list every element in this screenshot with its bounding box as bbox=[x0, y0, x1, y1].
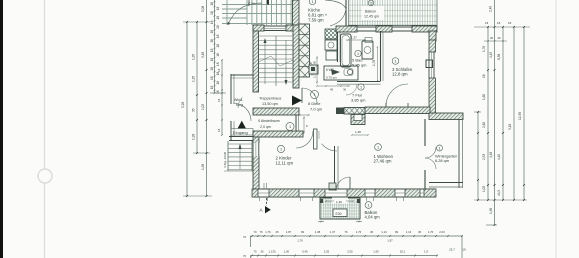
svg-text:4,04 qm: 4,04 qm bbox=[365, 215, 381, 220]
svg-text:E30: E30 bbox=[336, 212, 342, 216]
svg-text:18: 18 bbox=[216, 6, 220, 10]
svg-text:Treppenhaus: Treppenhaus bbox=[259, 97, 281, 101]
svg-text:1,76: 1,76 bbox=[265, 230, 271, 234]
svg-text:3,85 qm: 3,85 qm bbox=[351, 98, 366, 103]
svg-text:2,05: 2,05 bbox=[347, 250, 353, 254]
svg-text:7,59 qm: 7,59 qm bbox=[308, 18, 324, 23]
svg-text:18: 18 bbox=[216, 90, 220, 94]
svg-text:99: 99 bbox=[395, 230, 399, 234]
svg-text:45: 45 bbox=[370, 230, 374, 234]
svg-text:70: 70 bbox=[253, 230, 257, 234]
svg-text:13,50 qm: 13,50 qm bbox=[262, 102, 278, 106]
svg-text:Eingang: Eingang bbox=[233, 130, 248, 135]
svg-text:18: 18 bbox=[497, 21, 501, 25]
svg-text:3,18: 3,18 bbox=[508, 124, 512, 130]
svg-text:18: 18 bbox=[210, 20, 214, 24]
svg-text:4,45: 4,45 bbox=[489, 52, 493, 58]
svg-text:5,08: 5,08 bbox=[201, 6, 205, 12]
svg-text:7,0 qm: 7,0 qm bbox=[310, 107, 323, 112]
svg-text:6,28 qm: 6,28 qm bbox=[435, 158, 449, 163]
svg-text:35: 35 bbox=[192, 108, 196, 112]
svg-text:25,7: 25,7 bbox=[449, 248, 455, 252]
svg-text:18: 18 bbox=[216, 16, 220, 20]
svg-text:1,36: 1,36 bbox=[489, 208, 493, 214]
svg-text:18: 18 bbox=[210, 76, 214, 80]
svg-text:2,60: 2,60 bbox=[482, 122, 486, 128]
svg-text:1,76: 1,76 bbox=[428, 230, 434, 234]
svg-text:18: 18 bbox=[210, 67, 214, 71]
svg-text:2,05: 2,05 bbox=[324, 250, 330, 254]
svg-text:5,85 qm: 5,85 qm bbox=[352, 63, 367, 68]
svg-text:1: 1 bbox=[394, 60, 396, 64]
svg-text:94: 94 bbox=[252, 2, 256, 6]
svg-text:36: 36 bbox=[498, 36, 502, 40]
svg-text:1: 1 bbox=[367, 204, 369, 208]
svg-text:12,45 qm: 12,45 qm bbox=[364, 15, 379, 19]
svg-text:1,35: 1,35 bbox=[192, 76, 196, 82]
svg-text:1,13: 1,13 bbox=[406, 230, 412, 234]
svg-text:18: 18 bbox=[210, 39, 214, 43]
svg-text:45: 45 bbox=[275, 230, 279, 234]
svg-text:1: 1 bbox=[357, 52, 359, 56]
svg-text:1,38: 1,38 bbox=[315, 230, 321, 234]
svg-text:1: 1 bbox=[438, 147, 440, 151]
svg-text:18: 18 bbox=[485, 21, 489, 25]
svg-text:Wind-: Wind- bbox=[234, 98, 244, 102]
svg-text:1,38: 1,38 bbox=[336, 200, 342, 204]
svg-text:1,60: 1,60 bbox=[482, 94, 486, 100]
svg-text:27,46 qm: 27,46 qm bbox=[374, 159, 392, 164]
svg-text:76: 76 bbox=[259, 230, 263, 234]
svg-text:5,45: 5,45 bbox=[302, 250, 308, 254]
svg-text:18: 18 bbox=[508, 21, 512, 25]
svg-text:36: 36 bbox=[343, 88, 347, 92]
svg-text:Balkon: Balkon bbox=[365, 10, 376, 14]
svg-text:1,98: 1,98 bbox=[192, 134, 196, 140]
svg-text:1,50: 1,50 bbox=[284, 250, 290, 254]
svg-text:18: 18 bbox=[210, 30, 214, 34]
svg-text:1: 1 bbox=[370, 2, 372, 6]
svg-text:3,18: 3,18 bbox=[201, 52, 205, 58]
svg-text:85: 85 bbox=[313, 60, 317, 64]
svg-text:18: 18 bbox=[217, 68, 221, 72]
svg-text:36: 36 bbox=[490, 36, 494, 40]
svg-text:1,135: 1,135 bbox=[269, 250, 276, 254]
svg-text:1,0: 1,0 bbox=[313, 74, 317, 78]
svg-text:1,76: 1,76 bbox=[356, 230, 362, 234]
svg-text:18: 18 bbox=[210, 48, 214, 52]
svg-text:2,03: 2,03 bbox=[439, 230, 445, 234]
svg-text:5,28: 5,28 bbox=[181, 102, 185, 108]
svg-text:18: 18 bbox=[210, 86, 214, 90]
svg-text:70: 70 bbox=[253, 250, 257, 254]
svg-text:2,53: 2,53 bbox=[482, 154, 486, 160]
svg-text:76: 76 bbox=[344, 230, 348, 234]
svg-text:1,9: 1,9 bbox=[424, 250, 428, 254]
svg-text:1,87: 1,87 bbox=[286, 230, 292, 234]
svg-text:12,38: 12,38 bbox=[518, 112, 522, 120]
svg-text:8,38: 8,38 bbox=[497, 54, 501, 60]
svg-text:44,5: 44,5 bbox=[497, 190, 501, 196]
svg-text:4 Stg. 26/30: 4 Stg. 26/30 bbox=[223, 151, 227, 168]
svg-text:1,37: 1,37 bbox=[330, 230, 336, 234]
svg-text:1,78: 1,78 bbox=[372, 60, 376, 66]
svg-text:18: 18 bbox=[216, 34, 220, 38]
svg-text:9 Abstellraum: 9 Abstellraum bbox=[258, 119, 280, 123]
svg-text:12,11 qm: 12,11 qm bbox=[276, 160, 294, 165]
svg-text:1,05: 1,05 bbox=[482, 186, 486, 192]
svg-text:2,40: 2,40 bbox=[489, 6, 493, 12]
svg-text:18: 18 bbox=[210, 2, 214, 6]
svg-text:18: 18 bbox=[216, 44, 220, 48]
svg-text:70: 70 bbox=[243, 235, 247, 239]
svg-text:45: 45 bbox=[418, 230, 422, 234]
svg-text:18: 18 bbox=[216, 25, 220, 29]
svg-text:1,38: 1,38 bbox=[355, 130, 361, 134]
svg-text:fang: fang bbox=[236, 103, 243, 107]
svg-text:1: 1 bbox=[311, 0, 313, 4]
svg-text:1,98: 1,98 bbox=[201, 164, 205, 170]
svg-text:1,13: 1,13 bbox=[381, 230, 387, 234]
svg-text:18: 18 bbox=[210, 58, 214, 62]
svg-text:18: 18 bbox=[217, 98, 221, 102]
svg-text:20,1: 20,1 bbox=[400, 250, 406, 254]
svg-text:70: 70 bbox=[243, 254, 247, 258]
svg-text:1,76: 1,76 bbox=[297, 239, 303, 243]
svg-text:1,50: 1,50 bbox=[373, 250, 379, 254]
svg-text:1: 1 bbox=[289, 125, 291, 129]
svg-text:1,37: 1,37 bbox=[351, 36, 357, 40]
svg-text:4,48: 4,48 bbox=[489, 152, 493, 158]
svg-text:99: 99 bbox=[301, 230, 305, 234]
svg-text:18: 18 bbox=[210, 11, 214, 15]
svg-text:45: 45 bbox=[330, 88, 334, 92]
svg-text:18: 18 bbox=[217, 128, 221, 132]
svg-text:18: 18 bbox=[216, 62, 220, 66]
svg-text:0,75 qm: 0,75 qm bbox=[326, 76, 337, 80]
svg-text:1: 1 bbox=[377, 146, 379, 150]
svg-text:1,05: 1,05 bbox=[201, 104, 205, 110]
svg-text:4,40: 4,40 bbox=[497, 154, 501, 160]
svg-text:26: 26 bbox=[260, 250, 264, 254]
svg-text:18: 18 bbox=[482, 74, 486, 78]
svg-text:12,8 qm: 12,8 qm bbox=[392, 72, 408, 77]
svg-text:1: 1 bbox=[280, 148, 282, 152]
svg-text:1,35: 1,35 bbox=[192, 54, 196, 60]
svg-text:19: 19 bbox=[462, 248, 466, 252]
svg-text:18: 18 bbox=[216, 81, 220, 85]
svg-text:1,97: 1,97 bbox=[387, 239, 393, 243]
svg-text:18: 18 bbox=[216, 53, 220, 57]
svg-text:1: 1 bbox=[360, 86, 362, 90]
svg-text:8 Diele: 8 Diele bbox=[308, 101, 321, 106]
svg-text:1,76: 1,76 bbox=[482, 46, 486, 52]
svg-text:2,0 qm: 2,0 qm bbox=[260, 125, 271, 129]
